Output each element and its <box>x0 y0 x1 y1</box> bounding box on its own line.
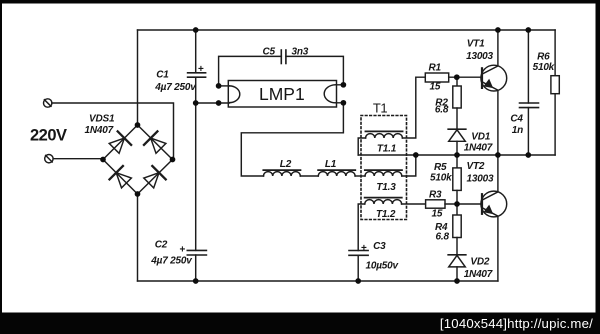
svg-text:1n: 1n <box>512 125 523 136</box>
wire lamp bottom-left pin <box>196 102 230 104</box>
node mid rail C4 <box>525 152 531 158</box>
transformer winding T1.2 <box>365 198 402 204</box>
node mid rail emitter <box>495 152 501 158</box>
svg-text:C5: C5 <box>263 47 276 58</box>
wire bottom terminal to bridge <box>53 158 103 160</box>
wire T1.2 left lead to C3 <box>358 204 365 251</box>
wire R4 to VD2 <box>456 238 458 255</box>
svg-text:T1.1: T1.1 <box>377 143 397 154</box>
capacitor C2 <box>187 250 206 255</box>
svg-text:C3: C3 <box>373 241 386 252</box>
border frame left <box>0 0 2 334</box>
svg-text:L2: L2 <box>280 159 292 170</box>
svg-text:220V: 220V <box>30 127 67 145</box>
wire top rail <box>138 29 556 31</box>
svg-text:6.8: 6.8 <box>435 104 449 115</box>
svg-text:1N407: 1N407 <box>464 142 493 153</box>
svg-text:+: + <box>198 64 204 75</box>
svg-text:510k: 510k <box>430 173 452 184</box>
svg-text:C2: C2 <box>155 239 168 250</box>
wire mid rail <box>358 154 555 156</box>
node VT1 base R2 <box>454 74 460 80</box>
terminal X1 <box>44 99 52 107</box>
terminal X2 <box>45 155 53 163</box>
diode bridge VDS1 diamond <box>103 125 173 194</box>
node bottom rail VD2 <box>454 278 460 284</box>
wire bridge minus lead <box>137 194 139 281</box>
transformer T1 dashed box <box>361 116 407 220</box>
node lamp top-right pin <box>341 82 347 88</box>
node VT2 base R4 <box>454 201 460 207</box>
svg-text:C1: C1 <box>156 70 169 81</box>
border frame right <box>596 0 600 334</box>
wire C4 branch <box>527 30 529 155</box>
wire C1 C2 branch <box>195 30 197 281</box>
bridge diode top-right <box>144 131 168 155</box>
resistor R6 <box>551 76 559 94</box>
resistor R4 <box>453 215 461 238</box>
svg-text:4µ7 250v: 4µ7 250v <box>154 82 197 93</box>
wire T1.1 right lead to R1 <box>402 77 425 138</box>
wire R5 branch <box>456 155 458 168</box>
node lamp top-left pin <box>216 83 222 89</box>
wire top terminal to bridge <box>52 103 174 160</box>
capacitor C3 <box>349 251 368 256</box>
lamp left electrode <box>229 86 240 103</box>
resistor R3 <box>426 200 445 208</box>
node bridge right <box>170 157 176 163</box>
resistor R1 <box>425 73 448 82</box>
svg-text:510k: 510k <box>533 62 555 73</box>
wire bridge plus lead <box>137 30 139 125</box>
svg-text:1N407: 1N407 <box>85 125 114 136</box>
capacitor C1 <box>188 73 206 77</box>
svg-text:VT2: VT2 <box>467 161 485 172</box>
svg-text:[1040x544]http://upic.me/: [1040x544]http://upic.me/ <box>440 316 593 331</box>
bridge diode top-left <box>107 131 131 155</box>
wire T1.2 right lead to R3 <box>402 203 426 205</box>
wire lamp right pins stubs <box>335 85 343 103</box>
node bottom rail C2 <box>193 278 199 284</box>
wire T1.1 left lead to mid rail <box>358 138 365 155</box>
node mid rail T1.3 <box>413 152 419 158</box>
node lamp bottom-left pin <box>216 100 222 106</box>
svg-text:1N407: 1N407 <box>464 269 493 280</box>
node bridge left <box>100 157 106 163</box>
node bridge top <box>135 122 141 128</box>
svg-text:4µ7 250v: 4µ7 250v <box>150 256 193 267</box>
node top rail C1 <box>193 27 199 33</box>
wire R1 to VT1 base <box>449 76 482 78</box>
wire C5 to lamp top-right pin <box>286 56 344 84</box>
wire R2 branch <box>456 77 458 86</box>
wire VT2 emitter to bottom rail <box>497 216 499 281</box>
svg-text:13003: 13003 <box>467 174 494 185</box>
wire bottom rail <box>138 280 498 282</box>
svg-text:15: 15 <box>432 208 443 219</box>
svg-text:15: 15 <box>430 81 441 92</box>
transformer winding T1.1 <box>365 131 402 138</box>
wire VT1 collector to top rail <box>497 30 499 66</box>
svg-text:R1: R1 <box>429 62 442 73</box>
capacitor C5 <box>281 50 286 64</box>
svg-text:6.8: 6.8 <box>436 232 450 243</box>
wire T1.3 to mid rail <box>402 155 416 176</box>
capacitor C4 <box>520 103 539 108</box>
watermark bar <box>0 313 600 334</box>
node C1 C2 midpoint <box>193 100 199 106</box>
transistor VT1 <box>481 65 507 91</box>
wire lamp bottom-right to choke line <box>241 103 343 176</box>
svg-text:T1.2: T1.2 <box>376 209 396 220</box>
bridge diode bottom-right <box>142 166 166 190</box>
svg-text:R3: R3 <box>429 190 442 201</box>
wire VD2 to bottom rail <box>456 267 458 281</box>
wire C3 to bottom rail <box>357 255 359 281</box>
svg-text:L1: L1 <box>325 159 337 170</box>
inductor L1 <box>318 170 355 176</box>
svg-text:R5: R5 <box>434 162 447 173</box>
svg-text:T1.3: T1.3 <box>376 182 396 193</box>
wire R5 to VT2 base node <box>456 190 458 204</box>
node bridge bottom <box>135 191 141 197</box>
svg-text:LMP1: LMP1 <box>259 84 305 104</box>
node lamp bottom-right pin <box>341 100 347 106</box>
node mid rail VD1 R5 <box>454 152 460 158</box>
diode VD1 <box>448 129 466 141</box>
transformer winding T1.3 <box>365 170 402 176</box>
wire R6 branch <box>554 30 556 155</box>
wire R3 to VT2 base <box>445 203 482 205</box>
svg-text:13003: 13003 <box>466 51 493 62</box>
node top rail C4 <box>525 27 531 33</box>
svg-text:VD2: VD2 <box>470 257 489 268</box>
wire lamp top-left pin to C5 <box>219 56 282 86</box>
wire R4 branch <box>456 204 458 215</box>
svg-text:3n3: 3n3 <box>292 47 309 58</box>
wire R2 to VD1 <box>456 108 458 129</box>
svg-text:+: + <box>180 245 186 256</box>
bridge diode bottom-left <box>109 166 133 190</box>
wire L1 to T1.3 <box>355 175 365 177</box>
diode VD2 <box>448 255 466 267</box>
svg-text:VT1: VT1 <box>467 39 485 50</box>
wire VD1 to mid rail <box>456 141 458 155</box>
inductor L2 <box>263 170 300 176</box>
svg-text:VDS1: VDS1 <box>89 114 115 125</box>
wire L2 to L1 <box>300 175 318 177</box>
resistor R5 <box>453 168 461 191</box>
border frame top <box>0 0 600 4</box>
transistor VT2 <box>481 191 507 217</box>
wire lamp left electrode stub <box>219 85 230 87</box>
wire VT1 emitter to mid rail <box>497 90 499 155</box>
node bottom rail C3 <box>355 278 361 284</box>
lamp right electrode <box>324 85 335 103</box>
wire VT2 collector to mid rail <box>497 155 499 192</box>
svg-text:C4: C4 <box>510 113 523 124</box>
svg-text:+: + <box>361 243 367 254</box>
lamp LMP1 tube <box>228 81 336 108</box>
svg-text:10µ50v: 10µ50v <box>366 260 400 271</box>
svg-text:T1: T1 <box>373 101 387 116</box>
svg-text:VD1: VD1 <box>471 131 490 142</box>
resistor R2 <box>453 86 461 108</box>
node top rail VT1 collector <box>495 27 501 33</box>
